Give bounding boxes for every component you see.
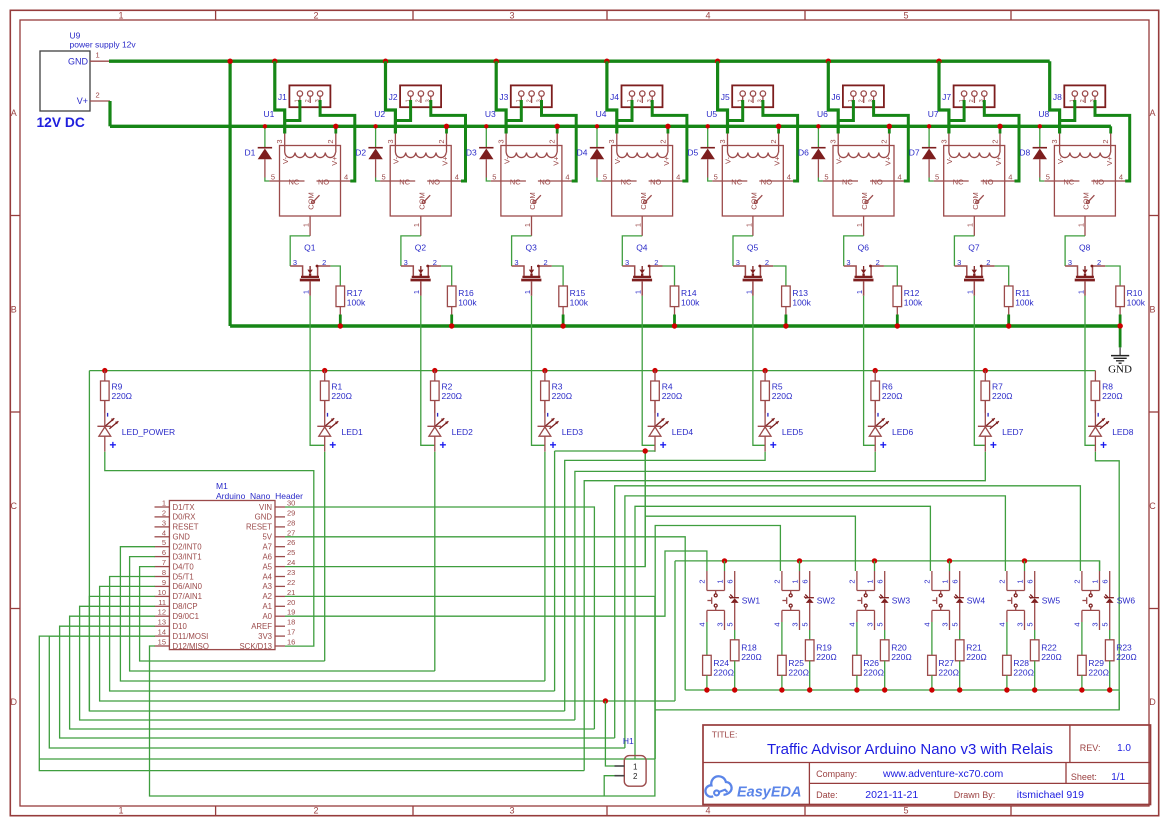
diode D2 bbox=[355, 124, 383, 177]
transistor Q6 bbox=[844, 243, 884, 296]
svg-text:R18: R18 bbox=[741, 643, 757, 653]
wire Q2 source to LED2 bbox=[421, 296, 435, 446]
svg-text:+: + bbox=[439, 438, 446, 452]
svg-text:220Ω: 220Ω bbox=[1013, 668, 1034, 678]
svg-text:25: 25 bbox=[287, 548, 295, 557]
svg-text:GND: GND bbox=[173, 533, 191, 542]
resistor R17 100k bbox=[330, 266, 366, 329]
svg-text:220Ω: 220Ω bbox=[882, 391, 903, 401]
svg-text:2: 2 bbox=[1101, 139, 1110, 143]
svg-text:2: 2 bbox=[1073, 579, 1082, 583]
svg-text:30: 30 bbox=[287, 499, 295, 508]
svg-text:220Ω: 220Ω bbox=[938, 668, 959, 678]
svg-text:NO: NO bbox=[872, 177, 883, 186]
svg-text:5: 5 bbox=[903, 806, 908, 816]
svg-text:Q6: Q6 bbox=[858, 243, 870, 253]
svg-text:A: A bbox=[11, 108, 17, 118]
svg-text:Traffic Advisor Arduino Nano v: Traffic Advisor Arduino Nano v3 with Rel… bbox=[767, 741, 1053, 758]
wire D-pin 13 wrap bbox=[60, 626, 615, 738]
svg-text:+: + bbox=[770, 438, 777, 452]
svg-text:26: 26 bbox=[287, 538, 295, 547]
svg-text:R15: R15 bbox=[570, 288, 586, 298]
wire relay U3 COM to Q3 gate bbox=[512, 236, 532, 266]
svg-text:1: 1 bbox=[162, 499, 166, 508]
wire LED3 column bbox=[544, 452, 546, 681]
resistor R22 220R bbox=[1030, 630, 1061, 693]
svg-text:6: 6 bbox=[801, 579, 810, 583]
svg-text:NC: NC bbox=[399, 177, 410, 186]
svg-text:itsmichael 919: itsmichael 919 bbox=[1017, 789, 1084, 801]
svg-text:NC: NC bbox=[953, 177, 964, 186]
svg-text:3: 3 bbox=[509, 806, 514, 816]
svg-text:R21: R21 bbox=[966, 643, 982, 653]
resistor R14 100k bbox=[663, 266, 701, 329]
power supply U9 bbox=[40, 31, 136, 112]
connector J6 bbox=[831, 85, 883, 107]
svg-text:1: 1 bbox=[1015, 579, 1024, 583]
resistor R21 220R bbox=[955, 630, 986, 693]
svg-text:R12: R12 bbox=[904, 288, 920, 298]
svg-text:Q3: Q3 bbox=[526, 243, 538, 253]
svg-text:SW5: SW5 bbox=[1042, 596, 1061, 606]
svg-text:D8: D8 bbox=[1019, 148, 1030, 158]
wire GND drop channel 5 bbox=[715, 59, 720, 64]
svg-text:GND: GND bbox=[1108, 364, 1132, 376]
svg-text:R23: R23 bbox=[1116, 643, 1132, 653]
svg-text:2: 2 bbox=[923, 579, 932, 583]
wire V+ to relay U3 coil bbox=[556, 126, 559, 133]
wire switch bottom rail bbox=[685, 689, 1119, 691]
wire GND drop channel 2 bbox=[383, 59, 388, 64]
svg-text:220Ω: 220Ω bbox=[966, 652, 987, 662]
svg-text:220Ω: 220Ω bbox=[863, 668, 884, 678]
svg-text:100k: 100k bbox=[1015, 298, 1034, 308]
svg-text:R11: R11 bbox=[1015, 288, 1030, 298]
svg-text:A: A bbox=[1149, 108, 1155, 118]
LED LED7 bbox=[978, 401, 1024, 453]
svg-text:3: 3 bbox=[386, 139, 395, 143]
svg-text:2: 2 bbox=[526, 99, 532, 102]
svg-text:SW4: SW4 bbox=[967, 596, 986, 606]
transistor Q4 bbox=[622, 243, 662, 296]
svg-text:1: 1 bbox=[118, 806, 123, 816]
resistor R18 220R bbox=[730, 630, 761, 693]
svg-text:20: 20 bbox=[287, 598, 295, 607]
svg-text:4: 4 bbox=[773, 622, 782, 626]
svg-text:1: 1 bbox=[523, 290, 532, 294]
wire A0 to SW1 bbox=[285, 551, 707, 616]
svg-text:4: 4 bbox=[1073, 622, 1082, 626]
svg-text:3: 3 bbox=[790, 622, 799, 626]
svg-text:220Ω: 220Ω bbox=[788, 668, 809, 678]
svg-text:LED3: LED3 bbox=[562, 427, 584, 437]
svg-text:12: 12 bbox=[158, 608, 166, 617]
svg-text:SW3: SW3 bbox=[892, 596, 911, 606]
svg-text:NC: NC bbox=[1063, 177, 1074, 186]
svg-text:2: 2 bbox=[162, 508, 166, 517]
svg-text:5: 5 bbox=[492, 172, 496, 181]
svg-text:5: 5 bbox=[951, 622, 960, 626]
svg-text:NO: NO bbox=[539, 177, 550, 186]
wire D5 to relay pin5 bbox=[712, 180, 722, 182]
svg-text:U2: U2 bbox=[374, 109, 385, 119]
resistor R28 220R bbox=[1003, 622, 1034, 693]
transistor Q3 bbox=[512, 243, 552, 296]
svg-text:www.adventure-xc70.com: www.adventure-xc70.com bbox=[882, 768, 1003, 780]
svg-text:R28: R28 bbox=[1013, 658, 1029, 668]
svg-text:1.0: 1.0 bbox=[1117, 743, 1131, 754]
wire D-pin 11 wrap bbox=[80, 606, 575, 720]
diode D5 bbox=[687, 124, 715, 177]
svg-text:R5: R5 bbox=[772, 382, 783, 392]
wire LED_POWER to SCK/D13 bbox=[105, 452, 314, 646]
svg-text:3: 3 bbox=[509, 11, 514, 21]
relay U4 bbox=[596, 109, 681, 236]
svg-text:4: 4 bbox=[848, 622, 857, 626]
resistor R23 220R bbox=[1105, 630, 1136, 693]
wire LED supply rail bbox=[89, 370, 1095, 372]
wire GND drop channel 1 bbox=[272, 59, 277, 64]
svg-text:V+: V+ bbox=[994, 156, 1003, 166]
wire Q7 source to LED7 bbox=[974, 296, 985, 446]
svg-text:NO: NO bbox=[761, 177, 772, 186]
wire LED2 column bbox=[434, 452, 436, 671]
svg-text:A1: A1 bbox=[262, 602, 272, 611]
svg-text:5V: 5V bbox=[262, 533, 272, 542]
wire V+ to relay U7 coil bbox=[999, 126, 1002, 133]
svg-text:R22: R22 bbox=[1041, 643, 1057, 653]
diode D8 bbox=[1019, 124, 1047, 177]
svg-text:3: 3 bbox=[718, 139, 727, 143]
relay U1 bbox=[264, 109, 349, 236]
svg-text:R14: R14 bbox=[681, 288, 697, 298]
svg-text:Date:: Date: bbox=[816, 790, 838, 800]
relay U2 bbox=[374, 109, 459, 236]
wire LED4 link bbox=[555, 450, 655, 453]
svg-text:2: 2 bbox=[698, 579, 707, 583]
svg-text:+: + bbox=[329, 438, 336, 452]
resistor R10 100k bbox=[1105, 266, 1145, 329]
svg-text:2: 2 bbox=[313, 11, 318, 21]
svg-text:2: 2 bbox=[637, 99, 643, 102]
svg-text:REV:: REV: bbox=[1080, 743, 1101, 753]
wire GND bus (top) bbox=[109, 60, 1050, 63]
svg-text:4: 4 bbox=[705, 806, 710, 816]
svg-text:D6: D6 bbox=[798, 148, 809, 158]
svg-text:1: 1 bbox=[966, 290, 975, 294]
svg-text:220Ω: 220Ω bbox=[1102, 391, 1123, 401]
svg-text:2: 2 bbox=[769, 139, 778, 143]
relay U7 bbox=[928, 109, 1013, 236]
relay U8 bbox=[1038, 109, 1123, 236]
svg-text:6: 6 bbox=[1026, 579, 1035, 583]
svg-text:4: 4 bbox=[565, 172, 569, 181]
svg-text:2: 2 bbox=[326, 139, 335, 143]
resistor R20 220R bbox=[880, 630, 911, 693]
svg-text:V-: V- bbox=[724, 156, 733, 164]
svg-text:9: 9 bbox=[162, 578, 166, 587]
svg-text:LED6: LED6 bbox=[892, 427, 914, 437]
svg-text:220Ω: 220Ω bbox=[713, 668, 734, 678]
wire relay U5 COM to Q5 gate bbox=[733, 236, 753, 266]
svg-text:5: 5 bbox=[382, 172, 386, 181]
wire GND drop channel 3 bbox=[494, 59, 499, 64]
switch SW1 bbox=[698, 558, 761, 630]
svg-text:V-: V- bbox=[834, 156, 843, 164]
svg-text:J8: J8 bbox=[1053, 92, 1062, 102]
wire LED5 link bbox=[565, 452, 765, 711]
svg-text:3: 3 bbox=[1090, 622, 1099, 626]
wire SW6 feed bbox=[615, 486, 1081, 738]
svg-text:2: 2 bbox=[990, 139, 999, 143]
relay U3 bbox=[485, 109, 570, 236]
svg-text:1: 1 bbox=[855, 223, 864, 227]
svg-text:J5: J5 bbox=[721, 92, 730, 102]
LED LED4 bbox=[648, 401, 694, 453]
svg-text:1: 1 bbox=[412, 223, 421, 227]
svg-text:21: 21 bbox=[287, 588, 295, 597]
svg-text:SW2: SW2 bbox=[817, 596, 836, 606]
wire J1 pin3 to relay NO bbox=[341, 180, 355, 182]
resistor R26 220R bbox=[853, 622, 884, 693]
wire J4 pin1 to GND bbox=[617, 100, 632, 121]
svg-text:2: 2 bbox=[658, 139, 667, 143]
wire D11/MOSI wrap bbox=[39, 636, 584, 771]
svg-text:3: 3 bbox=[715, 622, 724, 626]
svg-text:2: 2 bbox=[96, 91, 100, 100]
svg-text:J2: J2 bbox=[389, 92, 398, 102]
svg-text:J6: J6 bbox=[831, 92, 840, 102]
svg-text:R2: R2 bbox=[442, 382, 453, 392]
wire switch rail riser bbox=[674, 561, 676, 701]
wire J8 pin3 to relay NO bbox=[1115, 180, 1129, 182]
wire V+ to relay U1 coil bbox=[334, 126, 337, 133]
svg-text:1: 1 bbox=[940, 579, 949, 583]
svg-text:+: + bbox=[990, 438, 997, 452]
svg-text:J1: J1 bbox=[278, 92, 287, 102]
wire D8 to relay pin5 bbox=[1044, 180, 1054, 182]
svg-text:5: 5 bbox=[935, 172, 939, 181]
svg-text:4: 4 bbox=[1119, 172, 1123, 181]
svg-text:14: 14 bbox=[158, 628, 166, 637]
svg-text:220Ω: 220Ω bbox=[816, 652, 837, 662]
svg-text:1: 1 bbox=[302, 290, 311, 294]
svg-text:2: 2 bbox=[880, 139, 889, 143]
svg-text:R25: R25 bbox=[788, 658, 804, 668]
wire relay U7 COM to Q7 gate bbox=[954, 236, 974, 266]
svg-text:R4: R4 bbox=[662, 382, 673, 392]
wire H1 link row bbox=[655, 692, 1119, 710]
svg-text:3: 3 bbox=[497, 139, 506, 143]
wire D-pin 14 wrap bbox=[49, 636, 625, 748]
wire relay U2 COM to Q2 gate bbox=[401, 236, 421, 266]
resistor R15 100k bbox=[552, 266, 589, 329]
svg-text:Q4: Q4 bbox=[636, 243, 648, 253]
svg-text:V-: V- bbox=[281, 156, 290, 164]
svg-text:SCK/D13: SCK/D13 bbox=[239, 642, 272, 651]
wire J6 pin1 to GND bbox=[838, 100, 853, 121]
svg-text:220Ω: 220Ω bbox=[992, 391, 1013, 401]
svg-text:H1: H1 bbox=[623, 736, 634, 746]
svg-text:D1/TX: D1/TX bbox=[173, 503, 196, 512]
svg-text:4: 4 bbox=[998, 622, 1007, 626]
LED LED_POWER bbox=[97, 401, 175, 453]
svg-text:6: 6 bbox=[951, 579, 960, 583]
resistor R27 220R bbox=[928, 622, 959, 693]
wire J6 pin3 to relay NO bbox=[894, 180, 908, 182]
resistor R9 220R bbox=[101, 368, 133, 413]
wire Q8 source to LED8 bbox=[1085, 296, 1095, 446]
svg-text:2: 2 bbox=[548, 139, 557, 143]
wire Q4 source to LED4 bbox=[642, 296, 655, 446]
svg-text:1: 1 bbox=[715, 579, 724, 583]
svg-text:4: 4 bbox=[676, 172, 680, 181]
wire A5 net bbox=[285, 451, 645, 567]
svg-text:1: 1 bbox=[855, 290, 864, 294]
svg-text:J4: J4 bbox=[610, 92, 619, 102]
wire GND drop channel 6 bbox=[826, 59, 831, 64]
svg-text:6: 6 bbox=[1101, 579, 1110, 583]
svg-text:Q1: Q1 bbox=[304, 243, 316, 253]
junction LED4 bbox=[643, 448, 648, 453]
svg-text:LED1: LED1 bbox=[342, 427, 364, 437]
svg-text:V+: V+ bbox=[77, 96, 88, 106]
svg-text:D11/MOSI: D11/MOSI bbox=[173, 632, 209, 641]
svg-text:220Ω: 220Ω bbox=[1116, 652, 1137, 662]
svg-text:+: + bbox=[660, 438, 667, 452]
wire Q3 source to LED3 bbox=[532, 296, 545, 446]
svg-text:GND: GND bbox=[68, 57, 89, 67]
wire D-pin 12 wrap bbox=[70, 616, 595, 729]
svg-text:2: 2 bbox=[1080, 99, 1086, 102]
svg-text:V-: V- bbox=[1056, 156, 1065, 164]
svg-text:RESET: RESET bbox=[173, 523, 199, 532]
svg-text:2: 2 bbox=[848, 579, 857, 583]
transistor Q5 bbox=[733, 243, 773, 296]
svg-text:220Ω: 220Ω bbox=[891, 652, 912, 662]
svg-text:100k: 100k bbox=[570, 298, 589, 308]
svg-text:1: 1 bbox=[634, 223, 643, 227]
resistor R13 100k bbox=[773, 266, 811, 329]
IC M1 Arduino_Nano_Header bbox=[155, 481, 304, 651]
wire J5 pin3 to relay NO bbox=[783, 180, 797, 182]
svg-text:3: 3 bbox=[1050, 139, 1059, 143]
relay U6 bbox=[817, 109, 902, 236]
svg-text:NC: NC bbox=[510, 177, 521, 186]
wire J4 pin3 to relay NO bbox=[673, 180, 687, 182]
wire D-pin 8 wrap bbox=[110, 577, 555, 692]
wire Q1 source to LED1 bbox=[310, 296, 325, 446]
wire V+ to relay U6 coil bbox=[888, 126, 891, 133]
wire LED1 column bbox=[324, 452, 326, 661]
connector H1 bbox=[615, 736, 647, 786]
resistor R24 220R bbox=[703, 622, 734, 693]
svg-text:U1: U1 bbox=[264, 109, 275, 119]
svg-text:220Ω: 220Ω bbox=[741, 652, 762, 662]
svg-text:220Ω: 220Ω bbox=[772, 391, 793, 401]
svg-text:V+: V+ bbox=[1105, 156, 1114, 166]
svg-text:D5: D5 bbox=[687, 148, 698, 158]
transistor Q1 bbox=[290, 243, 330, 296]
resistor R29 220R bbox=[1078, 622, 1109, 693]
svg-text:D0/RX: D0/RX bbox=[173, 513, 197, 522]
wire LED8 link bbox=[1095, 452, 1119, 710]
svg-text:D: D bbox=[11, 697, 18, 707]
wire V+ from U9 pin2 bbox=[108, 101, 111, 126]
junction H1 tap bbox=[603, 698, 608, 703]
svg-text:3: 3 bbox=[939, 139, 948, 143]
svg-text:18: 18 bbox=[287, 618, 295, 627]
resistor R6 220R bbox=[871, 368, 903, 413]
svg-text:B: B bbox=[11, 305, 17, 315]
svg-text:2: 2 bbox=[305, 99, 311, 102]
svg-text:SW1: SW1 bbox=[742, 596, 761, 606]
wire H1 pin1 bbox=[605, 701, 614, 766]
svg-text:NC: NC bbox=[842, 177, 853, 186]
wire J7 pin3 to relay NO bbox=[1005, 180, 1019, 182]
svg-text:7: 7 bbox=[162, 558, 166, 567]
svg-text:2: 2 bbox=[998, 579, 1007, 583]
svg-text:U4: U4 bbox=[596, 109, 607, 119]
wire J3 pin1 to GND bbox=[506, 100, 521, 121]
wire V+ bus bbox=[110, 125, 1111, 128]
wire D1 to relay pin5 bbox=[269, 180, 279, 182]
svg-text:D9/0C1: D9/0C1 bbox=[173, 612, 199, 621]
svg-text:LED_POWER: LED_POWER bbox=[122, 427, 175, 437]
svg-text:R20: R20 bbox=[891, 643, 907, 653]
resistor R3 220R bbox=[541, 368, 573, 413]
svg-text:220Ω: 220Ω bbox=[552, 391, 573, 401]
svg-text:V+: V+ bbox=[551, 156, 560, 166]
svg-text:2: 2 bbox=[313, 806, 318, 816]
svg-text:+: + bbox=[109, 438, 116, 452]
svg-text:A4: A4 bbox=[262, 572, 272, 581]
svg-text:Q2: Q2 bbox=[415, 243, 427, 253]
diode D1 bbox=[245, 124, 273, 177]
svg-text:NC: NC bbox=[289, 177, 300, 186]
svg-text:NO: NO bbox=[318, 177, 329, 186]
svg-text:D4/T0: D4/T0 bbox=[173, 562, 195, 571]
svg-text:1: 1 bbox=[96, 51, 100, 60]
connector J4 bbox=[610, 85, 662, 107]
transistor Q8 bbox=[1065, 243, 1105, 296]
resistor R4 220R bbox=[651, 368, 683, 413]
svg-text:4: 4 bbox=[705, 11, 710, 21]
svg-text:2: 2 bbox=[773, 579, 782, 583]
svg-text:100k: 100k bbox=[681, 298, 700, 308]
wire J8 pin1 to GND bbox=[1060, 100, 1075, 121]
svg-text:3: 3 bbox=[275, 139, 284, 143]
svg-text:19: 19 bbox=[287, 608, 295, 617]
svg-text:3: 3 bbox=[607, 139, 616, 143]
svg-text:NC: NC bbox=[731, 177, 742, 186]
wire J3 pin3 to relay NO bbox=[562, 180, 576, 182]
svg-text:D: D bbox=[1149, 697, 1156, 707]
svg-text:V-: V- bbox=[502, 156, 511, 164]
svg-text:220Ω: 220Ω bbox=[442, 391, 463, 401]
resistor R25 220R bbox=[778, 622, 809, 693]
wire J5 pin1 to GND bbox=[728, 100, 743, 121]
svg-text:3: 3 bbox=[829, 139, 838, 143]
connector J2 bbox=[389, 85, 441, 107]
svg-text:6: 6 bbox=[876, 579, 885, 583]
svg-text:U5: U5 bbox=[706, 109, 717, 119]
svg-text:R29: R29 bbox=[1088, 658, 1104, 668]
svg-text:100k: 100k bbox=[458, 298, 477, 308]
svg-text:M1: M1 bbox=[216, 481, 228, 491]
svg-text:LED8: LED8 bbox=[1112, 427, 1134, 437]
wire D-pin 9 wrap bbox=[100, 586, 675, 701]
